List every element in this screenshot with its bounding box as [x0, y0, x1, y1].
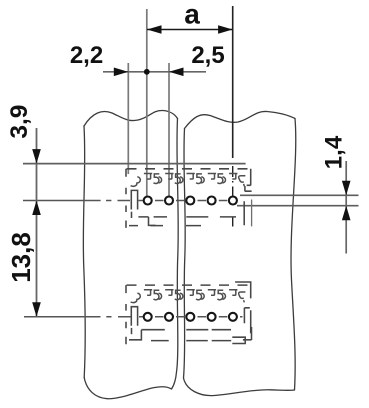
svg-text:3,9: 3,9: [6, 105, 33, 139]
svg-text:1,4: 1,4: [321, 135, 348, 169]
svg-text:13,8: 13,8: [6, 232, 36, 283]
svg-text:2,5: 2,5: [191, 42, 224, 69]
svg-text:a: a: [184, 0, 200, 30]
svg-text:2,2: 2,2: [70, 42, 103, 69]
